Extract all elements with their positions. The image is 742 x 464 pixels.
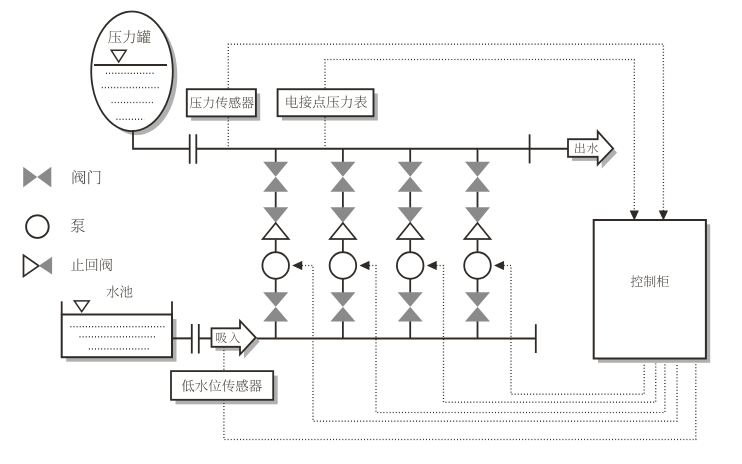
stem 1 xyxy=(275,192,277,208)
arrowhead into cabinet (pressure sensor wire) xyxy=(659,211,668,220)
pool dotted line 2 xyxy=(80,336,157,338)
pressure tank shadow xyxy=(96,16,178,136)
outlet arrow 出水 xyxy=(568,131,613,164)
tank wall right xyxy=(171,301,173,314)
check valve 1 xyxy=(263,207,289,239)
water dotted line 4 xyxy=(116,118,144,120)
stem 2c xyxy=(342,279,344,293)
control wire: cabinet to pump 1 xyxy=(302,266,677,422)
water dotted line 3 xyxy=(112,102,154,104)
stem 1c xyxy=(275,279,277,293)
union (discharge) xyxy=(190,134,197,164)
discharge pipe xyxy=(133,148,568,150)
control wire arrowhead into pump 2 xyxy=(360,261,369,270)
pressure tank label xyxy=(108,30,150,43)
signal wire: gauge to pipe xyxy=(324,117,326,148)
water dotted line 2 xyxy=(102,87,159,89)
control wire arrowhead into pump 1 xyxy=(293,261,302,270)
suction main pipe xyxy=(256,338,536,340)
stem 3b xyxy=(409,240,411,252)
legend valve symbol xyxy=(23,167,51,188)
pressure sensor label xyxy=(190,97,254,109)
valve 4B (suction) xyxy=(465,292,490,321)
suction pipe (union to arrow) xyxy=(200,337,212,339)
signal wire: low water sensor to cabinet xyxy=(224,364,696,440)
stem 2d xyxy=(342,322,344,339)
stem 4d xyxy=(477,322,479,339)
signal wire: pressure sensor to cabinet xyxy=(228,44,663,218)
pump line 4 riser (top) xyxy=(477,149,479,163)
stem 3d xyxy=(409,322,411,339)
low water sensor box shadow xyxy=(176,376,278,405)
pump line 3 riser (top) xyxy=(409,149,411,163)
pump 1 xyxy=(262,252,289,279)
stem 2b xyxy=(342,240,344,252)
stem 3c xyxy=(409,279,411,293)
tank wall left xyxy=(61,301,63,314)
signal wire: pressure sensor to pipe xyxy=(227,117,229,148)
stem 4 xyxy=(477,192,479,208)
pump 3 xyxy=(397,252,424,279)
check valve 3 xyxy=(397,207,423,239)
outlet arrow label xyxy=(575,143,598,154)
suction arrow 吸入 xyxy=(212,321,256,355)
stem 1d xyxy=(275,322,277,339)
pressure sensor box 压力传感器 xyxy=(187,89,256,116)
pump 2 xyxy=(330,252,357,279)
signal wire: suction pipe to low water sensor xyxy=(223,347,225,371)
stem 2 xyxy=(342,192,344,208)
stem 4c xyxy=(477,279,479,293)
pump line 2 riser (top) xyxy=(342,149,344,163)
suction arrow label xyxy=(216,332,240,343)
pool dotted line 1 xyxy=(70,326,164,328)
outlet arrow shadow xyxy=(572,136,617,169)
water level mark (tank) xyxy=(111,50,126,62)
pump 4 xyxy=(464,252,491,279)
control cabinet shadow xyxy=(598,224,710,362)
pressure sensor box shadow xyxy=(191,94,260,121)
legend check valve label 止回阀 xyxy=(71,258,112,271)
control cabinet 控制柜 xyxy=(594,220,706,359)
valve 4A (discharge) xyxy=(465,162,490,192)
contact pressure gauge label xyxy=(286,96,367,109)
check valve 2 xyxy=(330,207,356,239)
water tank shadow xyxy=(66,319,176,362)
pool dotted line 3 xyxy=(89,348,149,350)
union (suction) xyxy=(192,324,199,354)
low water sensor label xyxy=(182,380,262,392)
contact pressure gauge box shadow xyxy=(282,94,378,121)
control wire: cabinet to pump 4 xyxy=(504,266,644,395)
water tank 水池 xyxy=(62,315,172,358)
valve 2B (suction) xyxy=(330,292,355,321)
control wire arrowhead into pump 4 xyxy=(495,261,504,270)
tank label xyxy=(106,286,132,298)
stem 1b xyxy=(275,240,277,252)
stem 3 xyxy=(409,192,411,208)
pressure tank 压力罐 xyxy=(91,12,173,132)
tank outlet stem xyxy=(132,130,134,150)
contact pressure gauge box 电接点压力表 xyxy=(278,89,374,116)
valve 1B (suction) xyxy=(263,292,288,321)
legend check valve symbol xyxy=(24,255,53,276)
legend pump label 泵 xyxy=(71,219,85,233)
arrowhead into cabinet (gauge wire) xyxy=(630,211,639,220)
pipe tick (suction) xyxy=(535,324,537,353)
suction arrow shadow xyxy=(216,325,260,359)
control wire: cabinet to pump 3 xyxy=(437,266,656,403)
valve 1A (discharge) xyxy=(263,162,288,192)
low water sensor box 低水位传感器 xyxy=(171,371,273,400)
check valve 4 xyxy=(465,207,491,239)
valve 3A (discharge) xyxy=(398,162,423,192)
valve 2A (discharge) xyxy=(330,162,355,192)
pipe tick (discharge) xyxy=(529,134,531,163)
pump line 1 riser (top) xyxy=(275,149,277,163)
signal wire: gauge to cabinet xyxy=(325,60,634,219)
water level mark (pool) xyxy=(74,301,89,312)
valve 3B (suction) xyxy=(398,292,423,321)
legend valve label 阀门 xyxy=(73,170,101,184)
control wire: cabinet to pump 2 xyxy=(369,266,665,413)
legend pump symbol xyxy=(26,215,49,238)
control cabinet label xyxy=(631,275,669,287)
water dotted line 1 xyxy=(106,72,155,74)
stem 4b xyxy=(477,240,479,252)
control wire arrowhead into pump 3 xyxy=(427,261,436,270)
suction pipe (tank to union) xyxy=(172,337,191,339)
water surface line xyxy=(94,64,167,66)
